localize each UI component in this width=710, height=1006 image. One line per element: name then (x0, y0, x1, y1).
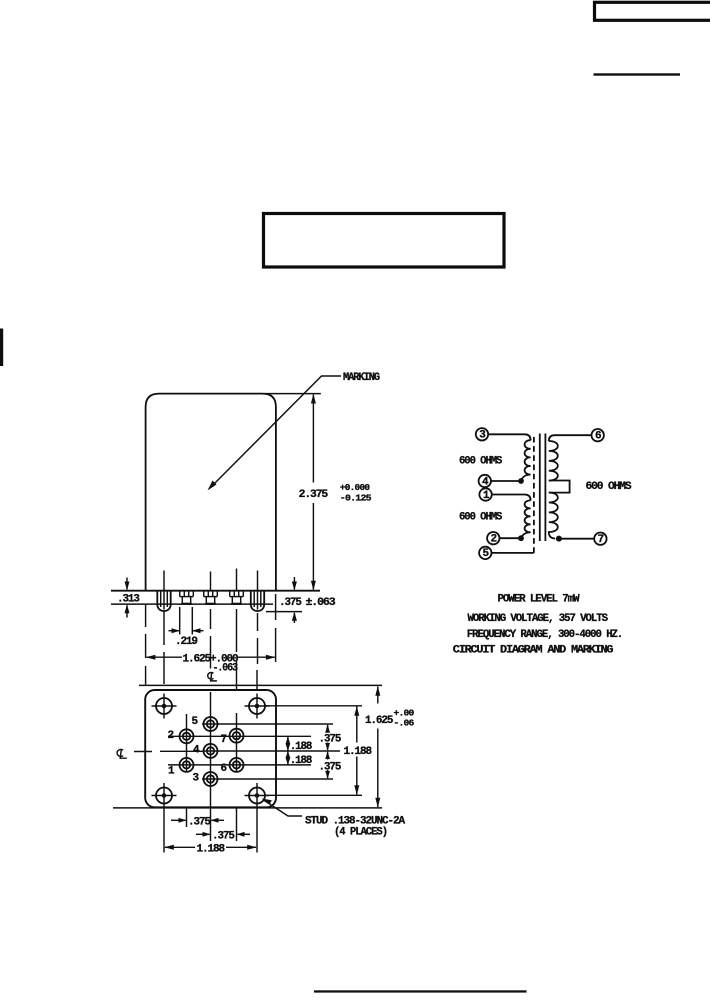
svg-text:.375: .375 (212, 830, 235, 842)
centerline column studs left (163, 809, 165, 853)
solder terminal 5 (204, 717, 218, 731)
dimension 1.625 vertical line (377, 687, 379, 808)
wire terminal 4 to junction (491, 480, 519, 482)
centerline symbol above bottom view (208, 673, 214, 680)
node junction terminal 4 (518, 478, 524, 484)
body edge extension line right (dashed) (275, 594, 277, 662)
bottom view case outline (145, 690, 276, 807)
pin centerlines between views (164, 609, 258, 689)
dimension .375 bottom second (196, 833, 210, 835)
svg-text:MARKING: MARKING (343, 372, 380, 384)
centerline symbol left (117, 749, 123, 756)
wire terminal 1 to primary lower (492, 495, 531, 501)
svg-text:600 OHMS: 600 OHMS (459, 512, 503, 524)
body edge extension line left (dashed) (145, 604, 147, 686)
svg-text:.188: .188 (290, 741, 313, 753)
primary winding lower (600 ohms) (521, 500, 531, 538)
dimension .375 bottom first (171, 819, 186, 821)
svg-text:±.063: ±.063 (306, 597, 337, 609)
extension line body bottom (113, 807, 382, 809)
electrostatic shield (dashed) (533, 435, 535, 553)
svg-text:WORKING VOLTAGE, 357 VOLTS: WORKING VOLTAGE, 357 VOLTS (468, 613, 609, 625)
dimension .219 arrow left (193, 630, 204, 632)
svg-text:-.063: -.063 (213, 662, 239, 674)
centerline row terminal 3 (202, 778, 333, 780)
solder terminal 1 (180, 758, 194, 772)
wire terminal 2 to junction (500, 537, 520, 539)
dimension 2.375 line upper segment (312, 395, 314, 483)
primary winding upper (600 ohms) (521, 440, 531, 481)
node junction terminal 7 (556, 536, 562, 542)
terminal 5 (479, 547, 491, 559)
dimension .313 arrow down (126, 578, 128, 590)
wire terminal 5 to shield (492, 552, 534, 554)
centerline column studs right (256, 809, 258, 853)
terminal 3 (476, 428, 488, 440)
dimension .375 pin length arrow down (293, 577, 295, 590)
wire junction to terminal 7 (560, 538, 594, 540)
extension line stud row top (266, 705, 363, 707)
svg-text:.219: .219 (175, 636, 197, 648)
dimension .219 extension lines (179, 607, 181, 635)
dimension 2.375 arrow down (311, 581, 316, 591)
marking leader arrowhead (208, 481, 217, 491)
svg-text:.188: .188 (290, 755, 313, 767)
svg-text:7: 7 (598, 534, 604, 546)
svg-text:1.188: 1.188 (197, 844, 226, 856)
secondary winding lower half (549, 493, 558, 539)
svg-text:.313: .313 (117, 594, 140, 606)
dimension .219 arrow right (169, 630, 180, 632)
revision box center (264, 214, 505, 268)
terminal 2 (487, 532, 499, 544)
terminal pin 5/4/3 column (front view) (204, 591, 218, 604)
stud pin left (front view) (157, 591, 170, 611)
dimension 1.188 bottom line (165, 846, 195, 848)
mounting stud bottom-right (249, 788, 265, 804)
svg-text:2.375: 2.375 (299, 489, 329, 501)
terminal 6 (592, 429, 604, 441)
svg-text:(4 PLACES): (4 PLACES) (334, 827, 387, 839)
core line right (544, 434, 546, 542)
change bar left margin (0, 329, 3, 367)
svg-text:1: 1 (168, 765, 175, 777)
title block box top right (595, 2, 710, 20)
marking leader line (212, 376, 342, 487)
dimension 2.375 arrow up (311, 394, 316, 404)
svg-text:600 OHMS: 600 OHMS (586, 481, 633, 493)
secondary winding jog (549, 481, 570, 493)
dimension 2.375 line lower segment (312, 503, 314, 590)
centerline row terminal 4 (134, 750, 340, 753)
solder terminal 2 (180, 729, 194, 743)
svg-text:6: 6 (595, 431, 601, 443)
svg-text:.375: .375 (279, 597, 302, 609)
wire secondary upper to terminal 6 (549, 435, 592, 441)
horizontal rule under title block (594, 73, 681, 75)
terminal 7 (594, 533, 606, 545)
solder terminal 3 (204, 772, 218, 786)
svg-text:1.625: 1.625 (365, 715, 394, 727)
node junction terminal 2 (518, 535, 524, 541)
dimension .188 pair line (287, 736, 289, 765)
secondary winding upper half (600 ohms) (549, 441, 558, 481)
dimension .313 arrow up (126, 605, 128, 617)
bottom footer rule (314, 990, 527, 992)
front view transformer case outline (146, 394, 276, 591)
dimension .375 pin length arrow up (293, 613, 295, 623)
solder terminal 4 (204, 744, 218, 758)
dimension 1.625 line with arrows (147, 656, 182, 658)
dimension .375 lower (terminal rows) (327, 752, 329, 779)
seating plane line (111, 590, 320, 592)
svg-text:5: 5 (192, 716, 199, 728)
svg-text:4: 4 (193, 744, 200, 756)
centerline column 5-4-3 (210, 692, 212, 841)
svg-text:1.188: 1.188 (344, 746, 373, 758)
centerline row terminal 5 (202, 723, 333, 725)
svg-text:.375: .375 (319, 762, 342, 774)
svg-text:-.06: -.06 (394, 717, 415, 728)
stud pin right (front view) (251, 591, 264, 611)
svg-text:CIRCUIT DIAGRAM AND MARKING: CIRCUIT DIAGRAM AND MARKING (453, 644, 614, 656)
mounting stud top-right (249, 698, 265, 714)
svg-text:-0.125: -0.125 (340, 492, 372, 503)
centerline row terminals 1 and 6 (168, 764, 311, 766)
svg-text:.375: .375 (188, 816, 211, 828)
extension line stud row bottom (266, 794, 363, 796)
svg-text:FREQUENCY RANGE, 300-4000 HZ.: FREQUENCY RANGE, 300-4000 HZ. (467, 629, 623, 641)
terminal 4 (479, 475, 491, 487)
terminal pin 2/1 column (front view) (180, 591, 194, 604)
dimension 2.375 extension line top (265, 393, 321, 395)
svg-text:3: 3 (193, 773, 200, 785)
stud leader line (264, 800, 303, 816)
dimension .375 upper (terminal rows) (327, 725, 329, 750)
core line left (539, 434, 541, 542)
centerline column 2-1 (186, 714, 188, 827)
terminal 1 (479, 488, 491, 500)
svg-text:600 OHMS: 600 OHMS (459, 456, 503, 468)
extension line body top (139, 684, 382, 686)
wire terminal 3 to primary upper (488, 434, 530, 440)
dimension 1.188 vertical line (356, 707, 358, 795)
svg-text:POWER LEVEL 7mW: POWER LEVEL 7mW (498, 594, 580, 606)
mounting stud top-left (156, 698, 172, 714)
svg-text:.375: .375 (319, 733, 342, 745)
stud tip datum line (266, 611, 302, 613)
centerline column 7-6 (236, 713, 238, 841)
solder terminal 7 (230, 729, 244, 743)
pin centerline ticks above seating plane (164, 569, 258, 591)
terminal pin 7/6 column (front view) (230, 591, 244, 604)
solder terminal 6 (230, 758, 244, 772)
terminal tip datum line (111, 603, 273, 605)
svg-text:2: 2 (491, 534, 497, 546)
centerline row terminals 2 and 7 (168, 735, 311, 737)
mounting stud bottom-left (156, 788, 172, 804)
svg-text:+0.000: +0.000 (340, 482, 371, 493)
